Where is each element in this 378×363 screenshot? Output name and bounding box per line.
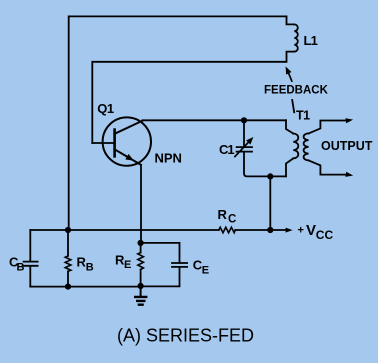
svg-text:Q1: Q1 [97,101,114,116]
svg-text:NPN: NPN [155,150,182,165]
svg-text:CC: CC [316,228,334,242]
svg-text:V: V [306,222,316,239]
wire: T1 primary bottom hook [286,158,293,176]
svg-text:C: C [228,214,236,226]
transistor Q1 circle [103,117,151,165]
capacitor CE plates [172,263,187,267]
capacitor CB bottom wire [29,266,31,287]
wire: collector to tank rail [143,119,287,121]
svg-text:FEEDBACK: FEEDBACK [264,85,329,97]
transistor Q1 base bar [113,130,116,157]
wire: T1 secondary top terminal [309,121,347,134]
inductor L1 [294,24,298,51]
svg-text:E: E [202,265,209,277]
feedback leader line to T1 [292,100,294,112]
capacitor C1 plates [237,147,252,152]
capacitor CE branch loop bottom [141,267,180,286]
output bottom terminal arrowhead [345,172,353,177]
output top terminal arrowhead [345,118,353,123]
resistor RB zigzag [65,256,71,271]
capacitor C1 arrowhead [246,137,253,145]
transistor Q1 emitter lead [115,149,141,165]
junction dot: RB top node [65,227,71,233]
resistor RB branch top wire [67,230,69,256]
capacitor CB branch top wire [29,230,31,262]
svg-text:C1: C1 [219,142,234,157]
wire: bottom ground rail [30,286,140,288]
capacitor C1 variable arrow shaft [235,141,250,157]
transformer T1 secondary winding [304,133,309,160]
transistor Q1 emitter arrowhead [125,154,134,161]
wire: emitter down through rail to RE node [140,165,142,243]
svg-text:L1: L1 [304,33,318,48]
svg-text:(A) SERIES-FED: (A) SERIES-FED [117,326,254,346]
wire: tank bottom rail [244,152,286,177]
capacitor CB plates [24,262,38,266]
feedback arrowhead at L1 [286,67,292,75]
junction dot: RB bottom node [65,284,71,290]
wire: tank rail down to T1 primary top [286,120,293,133]
wire: L1 bottom hook and inner feedback return to base [92,52,294,143]
VCC supply arrowhead [286,228,293,233]
svg-text:T1: T1 [296,109,310,123]
wire: T1 secondary bottom terminal [309,160,347,174]
svg-text:+: + [298,225,304,237]
svg-text:B: B [17,262,25,274]
feedback leader line to L1 [289,74,292,81]
junction dot: RE bottom / ground node [138,283,144,289]
ground bars [135,297,146,305]
wire: outer loop from L1 top, across top, down left side to bias rail [69,16,287,230]
junction dot: tank bottom node [267,173,273,179]
wire: L1 top hook [287,16,295,24]
resistor RE bottom wire [140,270,142,287]
capacitor CE branch loop top [141,243,180,263]
svg-text:OUTPUT: OUTPUT [321,139,373,153]
wire: VCC rail left section with CB top corner [30,229,219,231]
wire: base lead [92,142,114,144]
svg-text:B: B [86,262,94,274]
svg-text:R: R [218,207,228,222]
wire: tank bottom to VCC rail [269,176,271,230]
wire: C1 top branch [243,120,245,147]
transistor Q1 collector lead [115,121,143,134]
transformer T1 primary winding [293,134,298,159]
junction dot: RE top node [138,240,144,246]
wire: VCC rail right section to supply arrow [235,229,287,231]
junction dot: C1 top node [241,117,247,123]
resistor RB bottom wire [67,271,69,286]
resistor RC zigzag [219,227,236,232]
svg-text:E: E [124,259,131,271]
resistor RE zigzag [138,253,144,270]
ground stem [140,286,142,296]
junction dot: VCC rail node [267,227,273,233]
resistor RE top wire [140,243,142,253]
